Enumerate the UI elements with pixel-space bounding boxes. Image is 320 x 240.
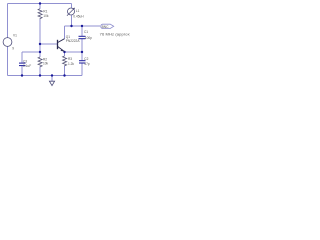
svg-text:10k: 10k xyxy=(43,14,49,18)
svg-text:0.1uF: 0.1uF xyxy=(23,64,31,68)
svg-text:1.2k: 1.2k xyxy=(68,62,74,66)
svg-text:R3: R3 xyxy=(68,57,72,61)
svg-text:0.45uH: 0.45uH xyxy=(73,14,84,18)
svg-text:100p: 100p xyxy=(85,36,92,40)
svg-text:L1: L1 xyxy=(76,9,80,13)
svg-text:10k: 10k xyxy=(43,62,49,66)
svg-text:BNC: BNC xyxy=(102,25,110,29)
svg-text:PN2222A: PN2222A xyxy=(66,39,81,43)
svg-text:C3: C3 xyxy=(23,60,27,64)
svg-text:C2: C2 xyxy=(84,57,88,61)
svg-text:9: 9 xyxy=(12,46,14,50)
svg-text:47p: 47p xyxy=(84,62,90,66)
svg-text:R1: R1 xyxy=(43,9,47,13)
svg-text:76 MHz (approx): 76 MHz (approx) xyxy=(100,31,130,36)
svg-text:C1: C1 xyxy=(84,30,88,34)
svg-text:V1: V1 xyxy=(13,34,17,38)
